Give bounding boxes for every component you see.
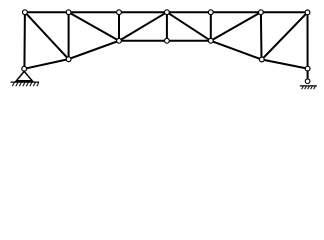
node T3 (117, 10, 122, 15)
wire vertical T4-B4 (166, 12, 168, 41)
wire diagonal T7-B6 (262, 12, 308, 59)
wire top chord T1-T7 (25, 11, 308, 13)
node T7 (305, 10, 310, 15)
wire diagonal T1-B2 (25, 12, 69, 59)
wire diagonal T4-B3 (119, 12, 167, 41)
wire vertical T1-S1 (23, 12, 26, 69)
ground hatching under roller (302, 86, 316, 89)
wire diagonal T6-B5 (211, 12, 261, 41)
wire vertical T2-B2 (68, 12, 70, 59)
ground hatching under pin (12, 83, 39, 87)
roller circle (305, 79, 310, 84)
pin support triangle at S1 (16, 71, 32, 80)
node T2 (66, 10, 71, 15)
node B2 (66, 57, 71, 62)
node B4 (165, 38, 170, 43)
node T4 (165, 10, 170, 15)
ground line under roller (300, 85, 317, 87)
wire vertical T3-B3 (118, 12, 120, 41)
node B3 (117, 38, 122, 43)
node T5 (208, 10, 213, 15)
wire vertical T7-S2 (307, 12, 309, 68)
truss diagram (0, 0, 324, 98)
node S2 (roller) (305, 66, 310, 71)
node T6 (259, 10, 264, 15)
node T1 (23, 10, 28, 15)
node S1 (pin) (22, 66, 27, 71)
node B6 (259, 57, 264, 62)
wire vertical T6-B6 (260, 12, 263, 59)
wire vertical T5-B5 (210, 12, 212, 41)
wire diagonal T2-B3 (69, 12, 119, 41)
node B5 (208, 38, 213, 43)
roller support stem at S2 (307, 71, 309, 78)
wire bottom chord S1-B2-B3-B4-B5-B6-S2 (24, 41, 307, 69)
wire diagonal T4-B5 (167, 12, 211, 41)
ground line under pin (11, 81, 40, 83)
